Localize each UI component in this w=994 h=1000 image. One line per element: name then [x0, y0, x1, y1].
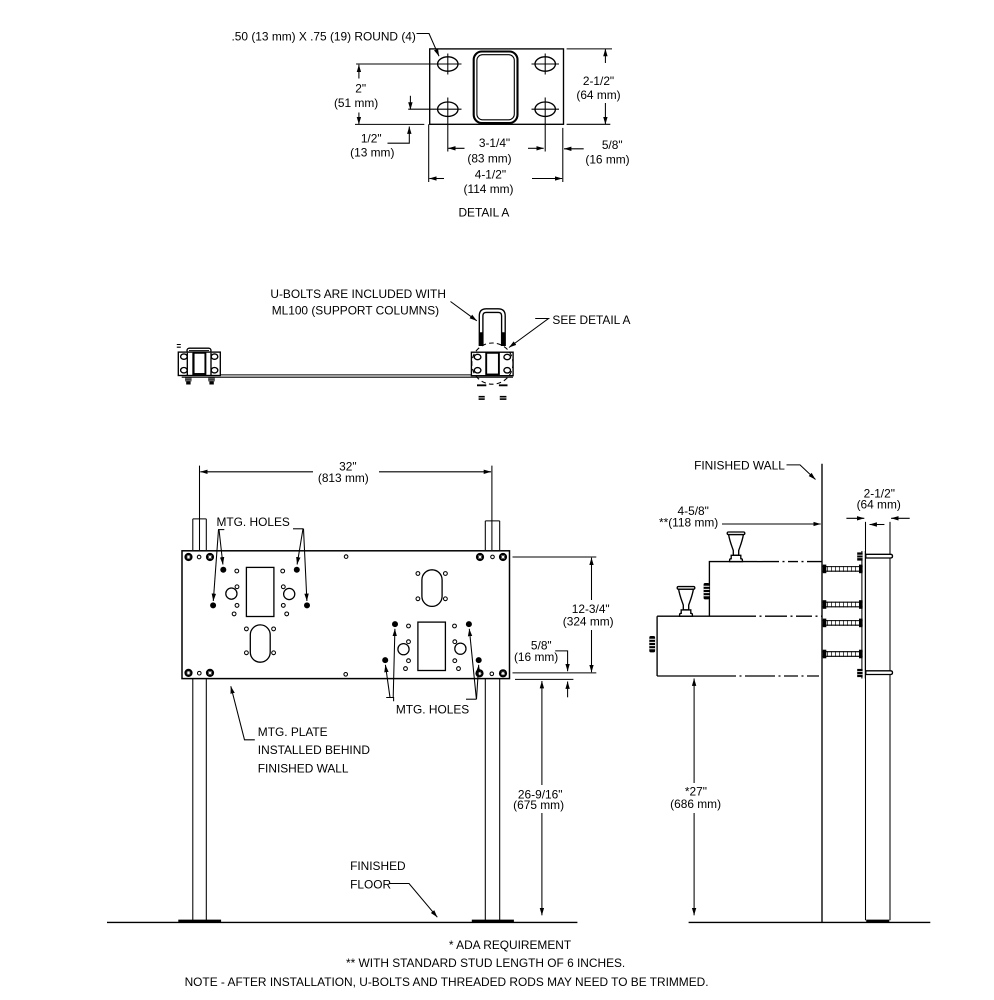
corner bolt TL1: [184, 553, 192, 561]
svg-text:(686 mm): (686 mm): [670, 797, 721, 811]
svg-text:INSTALLED BEHIND: INSTALLED BEHIND: [258, 743, 371, 757]
right plate hole bottom-right: [504, 368, 511, 373]
upper mtg hole dots: [220, 567, 226, 573]
extension line plate top right: [513, 556, 597, 558]
unit separation line: [657, 615, 740, 617]
svg-text:(64 mm): (64 mm): [857, 498, 901, 512]
dimension 5/8 arrow: [564, 148, 584, 150]
leader FINISHED FLOOR: [390, 884, 438, 918]
extension lines plate right edge: [567, 49, 612, 124]
threaded rod 4: [823, 650, 863, 659]
mounting plate (front view): [182, 551, 510, 679]
svg-text:FINISHED WALL: FINISHED WALL: [694, 459, 785, 473]
left small holes: [232, 569, 288, 616]
right support column cross-section: [486, 353, 499, 375]
left plate hole top-right: [211, 354, 218, 359]
svg-text:(324 mm): (324 mm): [563, 615, 614, 629]
corner bolt BR2: [499, 669, 507, 677]
dimension 2-1/2 vertical: [604, 49, 606, 63]
threaded rod 2: [823, 600, 863, 609]
column base (side): [866, 920, 889, 923]
corner bolt TL2: [206, 553, 214, 561]
lower U-bolt around column: [857, 669, 892, 677]
dimension 5/8 lower arrow: [567, 682, 569, 698]
svg-text:* ADA REQUIREMENT: * ADA REQUIREMENT: [449, 938, 571, 952]
left column base plate: [178, 920, 221, 923]
svg-text:2-1/2": 2-1/2": [583, 74, 614, 88]
svg-text:DETAIL A: DETAIL A: [458, 205, 509, 219]
svg-text:(114 mm): (114 mm): [464, 182, 514, 196]
left U-bolt top loop: [187, 348, 211, 353]
extension line plate right edge down: [562, 128, 564, 182]
leader to U-bolt: [451, 302, 477, 321]
right waterway cutout rectangle: [418, 622, 446, 670]
threaded rod 1: [823, 565, 863, 574]
right plate hole top-right: [504, 354, 511, 359]
svg-text:.50 (13 mm) X .75 (19) ROUND (: .50 (13 mm) X .75 (19) ROUND (4): [232, 30, 416, 44]
right oval cutout: [422, 570, 442, 607]
left oval corner holes: [245, 627, 276, 655]
left mounting plate: [178, 352, 220, 375]
extension line plate bottom right: [515, 678, 573, 680]
svg-text:ML100 (SUPPORT COLUMNS): ML100 (SUPPORT COLUMNS): [272, 303, 439, 317]
svg-text:2": 2": [355, 82, 366, 96]
dimension 2-1/2 arrows (side): [846, 517, 864, 519]
left oval cutout: [250, 625, 270, 662]
svg-text:(16 mm): (16 mm): [585, 152, 629, 166]
square tube cutout (inner): [477, 55, 514, 120]
dimension *27 vertical: [693, 679, 695, 784]
right column below plate: [485, 679, 499, 921]
dimension 32in line right segment: [379, 471, 491, 473]
lower mtg holes leaders: [386, 698, 393, 702]
lower unit push button (side): [649, 636, 655, 652]
svg-text:1/2": 1/2": [361, 132, 382, 146]
right trap circles: [398, 644, 409, 655]
leader to detail circle: [509, 319, 549, 348]
upper mtg holes leaders: [218, 529, 224, 531]
left U-bolt nut right: [208, 378, 215, 385]
threaded rod 3: [823, 619, 863, 628]
left plate hole top-left: [181, 354, 188, 359]
upper fountain unit (side): [709, 562, 757, 617]
leader MTG. PLATE to plate bottom: [231, 686, 255, 740]
corner bolt TR1: [476, 553, 484, 561]
right U-bolt leg shanks (black): [479, 332, 505, 345]
right column base plate: [472, 920, 514, 923]
svg-text:MTG. HOLES: MTG. HOLES: [396, 702, 469, 716]
detail A dashed circle: [472, 343, 513, 384]
right plate hole bottom-left: [474, 368, 481, 373]
slot hole top-right: [535, 57, 555, 71]
mounting plate outline (Detail A): [430, 49, 564, 124]
svg-text:(675 mm): (675 mm): [513, 798, 564, 812]
left waterway cutout rectangle: [246, 567, 274, 616]
svg-text:**(118 mm): **(118 mm): [659, 515, 718, 529]
hidden U-bolt ends (dashes): [477, 384, 508, 386]
extension line plate left edge down: [428, 124, 430, 182]
dimension 32in line left segment: [200, 471, 313, 473]
slot hole bottom-left: [438, 102, 458, 116]
extension line plate bottom-left: [355, 123, 424, 125]
left U-bolt legs over plate: [187, 353, 211, 376]
support column (side view): [866, 522, 891, 920]
dimension 4-5/8 leader line to wall: [722, 523, 821, 525]
small plate holes along edges: [197, 555, 494, 676]
svg-text:4-1/2": 4-1/2": [475, 168, 506, 182]
svg-text:FINISHED WALL: FINISHED WALL: [258, 761, 349, 775]
svg-text:MTG. HOLES: MTG. HOLES: [217, 515, 290, 529]
svg-text:3-1/4": 3-1/4": [479, 136, 510, 150]
crosshair bottom-left slot: [408, 98, 461, 152]
lower bubbler: [677, 587, 695, 617]
dimension 5/8 bracket upper arrow: [555, 651, 567, 671]
svg-text:SEE DETAIL A: SEE DETAIL A: [552, 313, 630, 327]
extension line bolt row bottom right: [513, 672, 597, 674]
leader to top-left slot: [417, 34, 440, 57]
svg-text:5/8": 5/8": [602, 138, 623, 152]
left column below plate: [193, 679, 207, 921]
dimension 2in vertical line: [358, 65, 360, 79]
right oval corner holes: [416, 572, 447, 601]
lower fountain unit (side): [657, 616, 724, 676]
corner bolt BL1: [184, 669, 192, 677]
left support column cross-section: [194, 353, 206, 374]
left column above plate: [193, 519, 207, 550]
svg-text:NOTE - AFTER INSTALLATION, U-B: NOTE - AFTER INSTALLATION, U-BOLTS AND T…: [185, 975, 709, 989]
dimension 4-1/2 arrows: [429, 178, 444, 180]
crosshair top-left slot: [356, 54, 461, 75]
plate pointer arrow: [870, 524, 885, 526]
upper bubbler: [727, 532, 745, 562]
leader FINISHED WALL to wall: [787, 465, 816, 480]
mounting plate (side view): [862, 551, 865, 679]
svg-text:(51 mm): (51 mm): [334, 96, 378, 110]
crosshair top-right slot: [532, 54, 560, 75]
right mounting plate: [471, 352, 513, 376]
dimension 1/2in lower arrow with bracket: [388, 127, 410, 144]
corner bolt TR2: [499, 553, 507, 561]
svg-text:(813 mm): (813 mm): [318, 471, 369, 485]
right U-bolt nut left: [479, 396, 485, 400]
left U-bolt cut marks: [177, 345, 181, 348]
lower mtg hole dots: [392, 621, 398, 627]
svg-text:(16 mm): (16 mm): [514, 650, 558, 664]
upper unit push button (side): [704, 583, 710, 599]
svg-text:** WITH STANDARD STUD LENGTH O: ** WITH STANDARD STUD LENGTH OF 6 INCHES…: [346, 956, 625, 970]
support bar (top view): [182, 375, 513, 377]
right U-bolt (upright): [479, 309, 505, 346]
slot hole top-left: [438, 57, 458, 71]
right plate hole top-left: [474, 354, 481, 359]
left plate hole bottom-right: [211, 368, 218, 373]
corner bolt BR1: [475, 669, 483, 677]
left trap circles: [226, 588, 237, 599]
dimension 3-1/4 arrows: [448, 147, 464, 149]
finished floor line (side view): [689, 921, 931, 923]
svg-text:(83 mm): (83 mm): [467, 152, 511, 166]
crosshair bottom-right slot: [532, 98, 560, 152]
svg-text:FLOOR: FLOOR: [350, 877, 391, 891]
dimension 12-3/4 vertical: [591, 558, 593, 600]
svg-text:(64 mm): (64 mm): [576, 88, 620, 102]
corner bolt BL2: [206, 669, 214, 677]
dimension 1/2in upper arrow: [409, 96, 411, 110]
finished wall line: [821, 464, 823, 923]
right column above plate: [485, 521, 499, 550]
dimension 26-9/16 vertical: [541, 681, 543, 785]
finished floor line (front view): [107, 921, 577, 923]
right U-bolt nut right: [500, 396, 507, 400]
svg-text:U-BOLTS ARE INCLUDED WITH: U-BOLTS ARE INCLUDED WITH: [270, 287, 446, 301]
upper U-bolt around column: [857, 552, 892, 560]
square tube cutout (outer): [474, 52, 518, 124]
svg-text:(13 mm): (13 mm): [350, 145, 394, 159]
dimension 32in extension lines: [200, 466, 492, 550]
slot hole bottom-right: [535, 102, 555, 116]
left U-bolt nut left: [185, 378, 192, 385]
svg-text:MTG. PLATE: MTG. PLATE: [258, 725, 328, 739]
svg-text:FINISHED: FINISHED: [350, 859, 406, 873]
left plate hole bottom-left: [181, 368, 188, 373]
right small holes: [404, 624, 461, 670]
